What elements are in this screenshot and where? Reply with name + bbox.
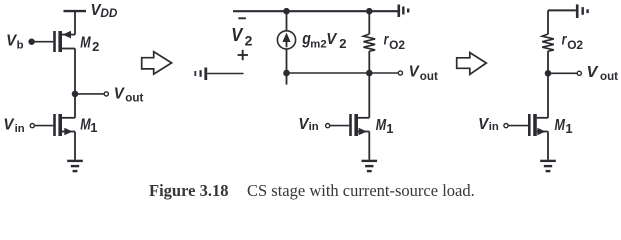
wire gate stub from ac ground (node gate of M2) bbox=[207, 73, 243, 75]
svg-text:V: V bbox=[478, 116, 489, 133]
svg-text:V: V bbox=[326, 31, 337, 48]
wire M1 source to ground (left) bbox=[74, 132, 76, 160]
wire Vb to M2 gate bbox=[32, 41, 54, 43]
node Vout terminal (right) bbox=[577, 71, 581, 75]
svg-text:1: 1 bbox=[386, 121, 393, 136]
svg-text:M: M bbox=[555, 117, 566, 134]
wire Vin to M1 gate (right) bbox=[509, 125, 529, 127]
transistor M2 bbox=[55, 31, 76, 52]
svg-text:out: out bbox=[420, 70, 438, 83]
svg-text:m2: m2 bbox=[310, 38, 326, 50]
svg-text:V: V bbox=[114, 86, 125, 103]
label Vin (middle) bbox=[298, 116, 318, 133]
node junction on top rail at rO2 bbox=[366, 8, 373, 15]
svg-text:2: 2 bbox=[245, 32, 253, 48]
arrow (implies) between circuit 2 and 3 bbox=[457, 53, 487, 75]
label M1 (middle) bbox=[376, 117, 394, 136]
node junction on top rail at current source bbox=[283, 8, 290, 15]
ground (left circuit) bbox=[67, 161, 83, 171]
svg-text:O2: O2 bbox=[389, 38, 405, 52]
label M1 (right) bbox=[555, 117, 573, 136]
node Vout terminal (left) bbox=[104, 92, 108, 96]
svg-text:M: M bbox=[376, 117, 387, 134]
node output junction (right) bbox=[545, 70, 552, 77]
svg-text:out: out bbox=[125, 91, 143, 104]
svg-text:2: 2 bbox=[339, 36, 346, 51]
wire M1 drain (right) bbox=[547, 73, 549, 118]
label M1 (left) bbox=[80, 116, 97, 135]
wire output rail (middle circuit) bbox=[287, 72, 398, 74]
svg-text:CS stage with current-source l: CS stage with current-source load. bbox=[247, 181, 475, 200]
small-signal ground (middle circuit, left side) bbox=[195, 68, 206, 81]
svg-text:1: 1 bbox=[565, 121, 572, 136]
small-signal ground (middle circuit, top right) bbox=[399, 5, 408, 18]
polarity minus of V2 bbox=[238, 17, 246, 19]
node junction output rail at M1 drain (middle) bbox=[366, 70, 373, 77]
wire M2 drain to output node bbox=[74, 49, 76, 95]
label VDD bbox=[91, 2, 118, 20]
svg-text:V: V bbox=[3, 117, 14, 134]
svg-text:in: in bbox=[309, 121, 319, 133]
resistor rO2 (right) bbox=[542, 10, 554, 73]
svg-text:in: in bbox=[15, 123, 25, 135]
transistor M1 (left) bbox=[55, 114, 76, 136]
label M2 bbox=[80, 35, 99, 55]
VDD supply bar bbox=[64, 11, 87, 34]
node junction output rail at current source bbox=[283, 70, 290, 77]
svg-text:DD: DD bbox=[100, 6, 118, 20]
wire Vin to M1 gate (middle) bbox=[330, 125, 349, 127]
label Vout (left) bbox=[114, 86, 144, 105]
wire output node to Vout terminal (left) bbox=[75, 93, 104, 95]
svg-text:M: M bbox=[80, 35, 91, 52]
wire top rail (middle circuit) bbox=[233, 10, 398, 12]
label V2 bbox=[231, 25, 253, 48]
node Vin terminal (left) bbox=[30, 124, 34, 128]
svg-text:1: 1 bbox=[90, 120, 97, 135]
label Vb bbox=[6, 32, 24, 51]
svg-text:in: in bbox=[489, 121, 499, 133]
node Vout terminal (middle) bbox=[398, 71, 402, 75]
svg-text:O2: O2 bbox=[567, 38, 583, 52]
label Vin (right) bbox=[478, 116, 499, 133]
small-signal ground (right circuit, top) bbox=[577, 4, 587, 18]
caption Figure 3.18 bbox=[149, 181, 475, 200]
label Vin (left) bbox=[3, 117, 24, 135]
svg-text:V: V bbox=[587, 64, 599, 81]
current source gm2V2 bbox=[277, 11, 295, 73]
transistor M1 (right) bbox=[529, 114, 548, 136]
wire output node to Vout terminal (right) bbox=[548, 72, 577, 74]
label Vout (right) bbox=[587, 64, 619, 83]
svg-text:out: out bbox=[600, 70, 618, 83]
wire output node to M1 drain (left) bbox=[74, 94, 76, 118]
wire M1 source to ground (middle) bbox=[368, 132, 370, 160]
node output junction (left) bbox=[72, 91, 79, 98]
svg-text:V: V bbox=[409, 64, 420, 81]
wire top rail (right circuit) bbox=[548, 9, 576, 11]
wire M1 drain (middle) bbox=[368, 73, 370, 118]
wire stub below junction bbox=[286, 73, 288, 85]
svg-text:b: b bbox=[17, 39, 24, 51]
wire Vin to M1 gate (left) bbox=[35, 125, 53, 127]
node Vin terminal (right) bbox=[504, 124, 508, 128]
ground (middle circuit) bbox=[362, 161, 378, 171]
arrow (implies) between circuit 1 and 2 bbox=[142, 52, 172, 74]
label rO2 (right) bbox=[562, 31, 584, 51]
svg-text:Figure 3.18: Figure 3.18 bbox=[149, 181, 228, 200]
transistor M1 (middle) bbox=[351, 114, 370, 136]
svg-text:V: V bbox=[231, 25, 244, 45]
resistor rO2 (middle) bbox=[364, 11, 376, 73]
label Vout (middle) bbox=[409, 64, 438, 83]
ground (right circuit) bbox=[540, 161, 556, 171]
label rO2 (middle) bbox=[384, 32, 406, 53]
polarity plus of V2 bbox=[238, 50, 248, 60]
node Vb terminal dot bbox=[28, 39, 34, 45]
node Vin terminal (middle) bbox=[326, 124, 330, 128]
svg-text:2: 2 bbox=[92, 39, 99, 54]
label gm2V2 bbox=[301, 29, 346, 51]
wire M1 source to ground (right) bbox=[547, 132, 549, 160]
